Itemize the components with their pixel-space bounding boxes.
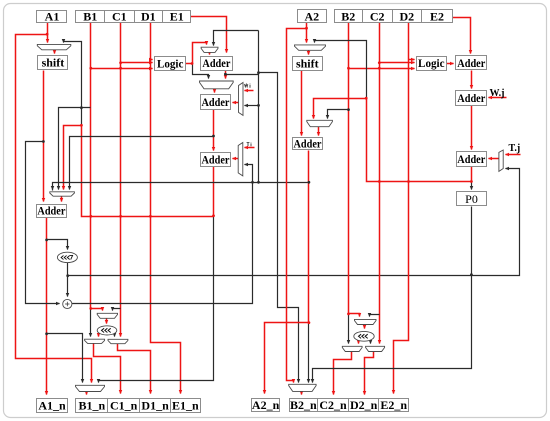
mux1 cluster left: [97, 313, 117, 318]
svg-text:D1_n: D1_n: [141, 399, 169, 413]
adder U2: [201, 95, 231, 110]
register E1: [163, 10, 191, 24]
node y216 taps: [89, 215, 92, 218]
svg-text:Logic: Logic: [418, 56, 445, 70]
wire Logic2 out to Adder5: [447, 63, 454, 65]
adder U6: [456, 91, 487, 106]
node adder4 corner: [308, 321, 311, 324]
wire Adder4 out to A2_n: [265, 151, 309, 394]
mux above adder1: [201, 47, 218, 52]
wire mux3b out to D2_n: [365, 352, 374, 395]
wire C1 bus down to mux3: [120, 23, 122, 337]
wire D1 to Logic1 stub: [151, 59, 153, 61]
register C2_n: [318, 398, 349, 412]
mux Wj vertical: [239, 83, 244, 116]
wire Wj mux to Adder2: [233, 102, 239, 104]
wire shift output to Adder L: [43, 71, 45, 202]
svg-text:D1: D1: [141, 10, 156, 24]
wire shift black branch to xor: [26, 142, 60, 304]
svg-text:C2: C2: [370, 9, 385, 23]
wire Adder L out to A1_n: [46, 218, 48, 395]
rotate left 7 ellipse: [57, 252, 77, 262]
wire feedback y181 right: [367, 99, 472, 182]
svg-text:C1: C1: [112, 10, 127, 24]
register D1: [135, 10, 163, 24]
register D2: [393, 9, 422, 23]
wire muxS1 to shift: [54, 50, 56, 54]
node A2 branch: [305, 27, 308, 30]
register D2_n: [349, 398, 379, 412]
wire Adder L branch to rot7: [47, 240, 68, 250]
wire Logic1 output up to muxB: [186, 43, 207, 64]
wire Adder L branch to mux4: [47, 334, 83, 383]
register P0: [457, 192, 487, 207]
wire T.j stub to Tj mux: [506, 154, 521, 156]
wire W.j stub to Adder6: [489, 97, 507, 99]
shift1 box: [38, 56, 68, 70]
mux above shift1: [37, 44, 71, 49]
wire mux5 to Adder4: [318, 127, 320, 136]
wire Wj input stub: [245, 90, 254, 92]
wire Tj mux out to Adder7: [489, 158, 499, 160]
svg-text:A2_n: A2_n: [252, 398, 280, 412]
wire ellipse to mux2b: [358, 342, 360, 344]
mux4 bottom right: [289, 384, 316, 391]
mux above shift2: [295, 45, 326, 50]
node logic1 taps: [89, 67, 92, 70]
mux2 cluster right: [342, 346, 362, 351]
register B1: [76, 10, 105, 24]
wire mux6 to shift2: [308, 51, 310, 55]
node rot7 tap: [66, 274, 69, 277]
svg-text:Adder: Adder: [202, 153, 231, 167]
node adder2 tap: [212, 135, 215, 138]
mux3 cluster right: [366, 346, 385, 351]
adder UL: [37, 204, 67, 218]
adder U4: [293, 137, 323, 151]
register A2_n: [252, 398, 280, 412]
wire muxS1 black input from B1 link: [64, 42, 82, 126]
svg-text:Adder: Adder: [457, 91, 486, 105]
rotate ellipse right cluster: [354, 331, 374, 341]
wire ellipse to mux3: [114, 334, 116, 337]
wire mux1b to ellipse: [364, 325, 366, 329]
node shift tap: [42, 140, 45, 143]
wire D2 to Logic2 stub: [409, 59, 415, 61]
svg-text:W.j: W.j: [490, 88, 505, 99]
node wj tap: [257, 104, 260, 107]
wire Adder2 out to Adder3: [213, 110, 215, 151]
logic L2: [417, 56, 447, 71]
register D1_n: [140, 399, 171, 413]
node adderL taps: [45, 239, 48, 242]
wire E1 black elbow to muxB: [214, 31, 259, 46]
wire C1 jog to mux1: [113, 309, 121, 311]
mux2 cluster left: [85, 339, 105, 343]
svg-text:Adder: Adder: [457, 152, 486, 166]
wire muxA to Adder L: [61, 197, 63, 202]
node p0 cross: [470, 273, 473, 276]
wire B1 down to mux2: [90, 309, 92, 337]
svg-text:B2_n: B2_n: [290, 398, 317, 412]
wire muxC to Adder2: [214, 89, 216, 93]
node logic2 taps: [347, 67, 350, 70]
adder U1: [201, 56, 233, 70]
wire Ti mux to Adder3: [233, 158, 239, 160]
svg-text:D2: D2: [399, 9, 414, 23]
node b1 corner: [89, 307, 92, 310]
mux Tj vertical: [499, 150, 503, 171]
wire mux6 black input elbow: [315, 41, 367, 99]
register E1_n: [171, 399, 201, 413]
register A2: [298, 9, 327, 23]
wire Adder1 out branch right: [226, 74, 259, 76]
wire feedback red horizontal y216: [82, 126, 214, 217]
wire A1 output to mux: [47, 23, 49, 43]
register A1_n: [37, 399, 68, 413]
wire B2 to Logic2: [349, 68, 415, 70]
node y182 junctions: [257, 181, 260, 184]
mux above adder4: [307, 120, 333, 126]
wire D2 bus down jog to E2_n: [394, 23, 409, 394]
wire shift2 out to Adder4: [301, 71, 303, 136]
mux3 cluster left: [108, 339, 128, 343]
svg-text:A1: A1: [45, 10, 60, 24]
wire Logic1 down to muxC: [193, 64, 209, 79]
rotate ellipse left cluster: [97, 326, 117, 335]
wire D1 bus down jog to E1_n: [151, 23, 181, 394]
register C1_n: [108, 399, 140, 413]
svg-text:E2: E2: [430, 9, 444, 23]
svg-text:E1_n: E1_n: [172, 399, 199, 413]
svg-text:A1_n: A1_n: [38, 399, 66, 413]
wire rot7 branch long y275 to Tj mux: [68, 169, 520, 276]
wire B2 bus down to mux1b: [349, 23, 360, 317]
register B1_n: [76, 399, 108, 413]
mux4 bottom left: [76, 385, 105, 391]
wire feedback line y182: [53, 183, 308, 191]
svg-text:Adder: Adder: [37, 204, 66, 218]
register E2_n: [379, 398, 409, 412]
wire C1 to Logic1: [121, 62, 153, 64]
wire A2 out to mux6: [306, 23, 308, 43]
wire Adder7 junction to P0: [471, 182, 473, 190]
svg-text:P0: P0: [465, 192, 478, 206]
wire B1 to Logic1: [91, 68, 153, 70]
register C2: [363, 9, 393, 23]
svg-text:B1_n: B1_n: [78, 399, 105, 413]
svg-text:Adder: Adder: [202, 95, 231, 109]
wire vertical bus x258: [258, 31, 260, 183]
wire B1 bus down to mux1: [91, 23, 103, 311]
wire E2 right elbow to Adder5: [453, 18, 471, 54]
wire B2 down to mux2b: [348, 314, 350, 344]
wire xor out up to Ti mux: [72, 165, 253, 304]
wire mux2b out to C2_n: [334, 352, 352, 395]
wire Adder2-3 branch to muxA: [70, 137, 214, 190]
svg-text:shift: shift: [296, 57, 319, 71]
wire C2 jog to mux1b: [370, 315, 380, 317]
wire Adder6 out to Adder7: [471, 106, 473, 150]
wire ellipse to mux2: [98, 334, 100, 337]
logic L1: [155, 57, 186, 71]
svg-text:Adder: Adder: [457, 56, 486, 70]
svg-text:B1: B1: [83, 10, 97, 24]
svg-text:T.j: T.j: [509, 143, 521, 154]
wire mux1 to rot ellipse: [106, 319, 108, 324]
node y181 junctions: [378, 180, 381, 183]
wire Adder3 out red: [213, 167, 215, 216]
wire to Wj mux black input: [245, 105, 259, 107]
wire cross-link to right mux4b: [259, 73, 299, 383]
register A1: [37, 10, 67, 24]
shift2 box: [293, 57, 323, 71]
wire B2 branch to mux5: [328, 110, 349, 119]
register B2_n: [290, 398, 318, 412]
node mux6 link: [365, 97, 368, 100]
svg-text:Adder: Adder: [202, 56, 231, 70]
wire A2 branch left down to mux4b: [287, 29, 307, 383]
svg-text:E1: E1: [170, 10, 184, 24]
wire P0 out long line to mux4b: [313, 207, 472, 383]
svg-text:A2: A2: [304, 9, 319, 23]
register B2: [335, 9, 363, 23]
wire Adder1 out to muxC: [225, 71, 227, 79]
node adder1 branch: [224, 73, 227, 76]
wire rot7 out to xor: [67, 263, 69, 297]
node b1 tap: [80, 106, 83, 109]
wire A1 branch left down to mux4: [16, 35, 92, 383]
wire Adder7 out red: [471, 167, 473, 182]
svg-text:Logic: Logic: [157, 57, 184, 71]
wire Adder3 out down to mux4: [99, 216, 214, 383]
mux Ti vertical: [238, 143, 243, 176]
svg-text:B2: B2: [341, 9, 355, 23]
wire Ti input stub: [245, 147, 255, 149]
wire red branch to muxA: [64, 126, 82, 190]
node b2 taps: [347, 108, 350, 111]
wire E1 right elbow to Adder1: [191, 17, 227, 53]
mux1 cluster right: [355, 319, 377, 324]
xor circle: [63, 299, 72, 308]
wire mux4b out to B2_n: [301, 392, 303, 395]
wire mux3 out to D1_n: [118, 344, 151, 394]
svg-text:C1_n: C1_n: [110, 399, 138, 413]
adder U5: [456, 56, 487, 70]
wire muxB to Adder1: [209, 53, 211, 55]
register E2: [422, 9, 453, 23]
node y182 end: [308, 181, 311, 184]
wire mux4 out to B1_n: [86, 392, 88, 395]
svg-text:shift: shift: [42, 56, 65, 70]
wire C2 to Logic2: [380, 62, 415, 64]
mux above adderL: [50, 192, 75, 196]
adder U7: [457, 152, 487, 167]
mux above adder2: [200, 81, 234, 89]
node A1 branch: [46, 33, 49, 36]
wire Adder4 black cont to mux4b: [308, 323, 310, 383]
wire mux2 out to C1_n: [94, 344, 121, 394]
svg-text:C2_n: C2_n: [319, 398, 347, 412]
svg-text:E2_n: E2_n: [380, 398, 407, 412]
svg-text:Adder: Adder: [294, 137, 323, 151]
node logic1 out: [191, 62, 194, 65]
adder U3: [201, 153, 231, 167]
wire ellipseR to mux3b: [370, 342, 372, 344]
wire C2 bus down to mux3b: [379, 23, 381, 344]
register C1: [105, 10, 135, 24]
wire Adder5 out to Adder6: [471, 71, 473, 89]
svg-text:D2_n: D2_n: [350, 398, 378, 412]
wire B2ish red link to mux5: [314, 99, 367, 119]
wire B1 link to muxA: [59, 108, 91, 190]
